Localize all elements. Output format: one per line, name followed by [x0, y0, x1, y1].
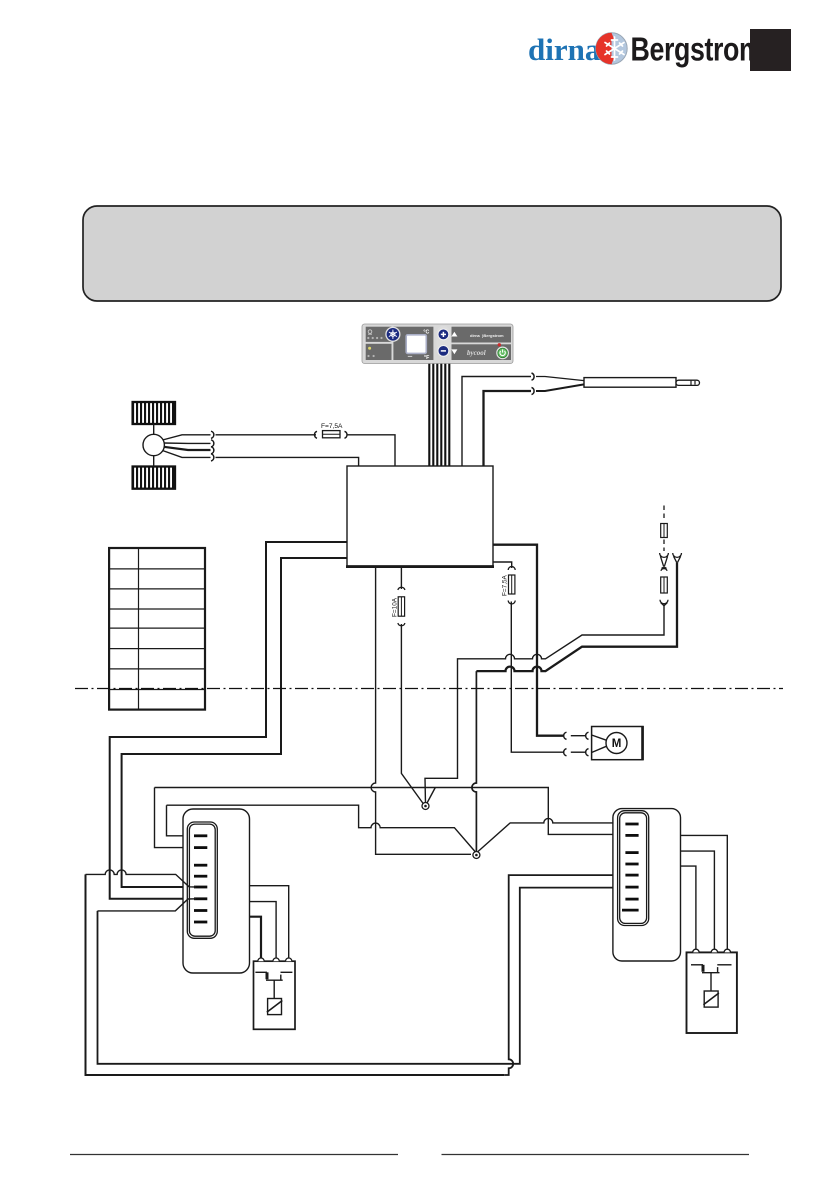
- fuse F1 7,5A horizontal: [315, 431, 347, 439]
- wire box-left upper to left connector pin6: [110, 542, 347, 899]
- svg-text:dirna: dirna: [470, 333, 481, 338]
- fan wire 3 curl: [211, 447, 214, 454]
- svg-text:)Bergstrom: )Bergstrom: [482, 333, 504, 338]
- panel red led: [498, 343, 501, 346]
- motor wire curls upper: [564, 732, 567, 739]
- panel plus button: [438, 329, 449, 340]
- fuse F4 roof lead: [661, 577, 668, 593]
- wire fan1 to fuse and box: [216, 434, 317, 436]
- legend table: [109, 548, 205, 710]
- footer rule left: [70, 1154, 398, 1156]
- control panel U1: [362, 324, 513, 364]
- blower resistor block lower: [133, 467, 175, 489]
- left relay K1 feed wires: [250, 886, 289, 959]
- splice Y at x677: [673, 553, 682, 562]
- svg-text:F=10A: F=10A: [392, 597, 399, 617]
- temperature probe S1: [536, 377, 700, 392]
- blower motor shaft: [153, 424, 155, 434]
- blower resistor block upper: [133, 402, 175, 424]
- wire node2 riser to roof lead (thick): [472, 671, 476, 852]
- wire box-left lower to left connector pin5: [122, 558, 347, 887]
- wire sensor lead A: [462, 377, 531, 467]
- panel led dots row: [367, 337, 382, 339]
- right connector J2 pins: [622, 824, 639, 910]
- left connector J1 outer shell: [183, 809, 250, 973]
- panel plus-minus pill: [436, 326, 450, 357]
- svg-text:Bergstrom: Bergstrom: [631, 32, 763, 68]
- panel LCD display: [406, 335, 426, 354]
- svg-text:°C: °C: [423, 329, 429, 335]
- wire box-right to motor upper (thick): [493, 545, 563, 736]
- panel MIN marks: [408, 355, 412, 357]
- fan wire 4: [163, 451, 211, 458]
- footer rule right: [442, 1154, 750, 1156]
- wire node2 to right connector pin1: [478, 818, 628, 851]
- left connector J1 pins: [194, 836, 207, 922]
- sensor splice curl B: [532, 387, 535, 394]
- svg-text:°F: °F: [424, 355, 429, 361]
- svg-text:dirna: dirna: [528, 32, 601, 67]
- wire box-right via fuse F3: [493, 562, 512, 568]
- node2 junction: [473, 852, 480, 859]
- fan wire 3: [164, 447, 211, 450]
- fan wire 2: [164, 442, 211, 444]
- sensor splice curl A: [532, 373, 535, 380]
- ground rail lower to pin6s: [98, 899, 197, 911]
- dash-dot bulkhead line: [75, 688, 783, 690]
- panel lower dots: [367, 355, 374, 357]
- svg-text:F=7,5A: F=7,5A: [321, 423, 343, 430]
- dashed supply stub: [663, 506, 665, 522]
- left relay K1: [254, 958, 296, 1029]
- right connector J2 outer shell: [613, 809, 681, 961]
- fuse F3 7,5A vertical: [508, 567, 563, 753]
- grey rounded callout box: [83, 206, 781, 301]
- wire sensor lead B: [484, 391, 532, 466]
- node1 branch diagonal: [427, 788, 436, 805]
- node1 junction: [422, 803, 429, 810]
- control box A1: [347, 466, 493, 566]
- fan wire 2 curl: [211, 440, 214, 447]
- black corner square: [750, 29, 791, 71]
- right connector J2 socket: [618, 811, 649, 926]
- fan wire 1: [163, 435, 211, 440]
- panel up arrow: [451, 332, 457, 337]
- panel power button: [496, 347, 509, 360]
- condenser motor M1: [592, 726, 643, 760]
- blower motor B1: [143, 434, 164, 455]
- right relay K2 feed wires: [681, 835, 728, 949]
- panel minus button: [438, 346, 449, 357]
- fuse F5 dashed lead: [661, 524, 668, 538]
- svg-text:bycool: bycool: [467, 349, 486, 357]
- splice X pair at x664: [660, 553, 669, 571]
- ground rail upper with hops to pin5s: [86, 870, 197, 887]
- motor wire curls lower: [564, 749, 567, 756]
- fuse F2 10A vertical with wire to node1: [398, 567, 424, 804]
- ribbon cable from panel to control box: [429, 364, 449, 466]
- left connector J1 socket: [187, 822, 217, 938]
- svg-text:F=7,5A: F=7,5A: [502, 574, 509, 596]
- long wire pin1-left to node2: [167, 805, 476, 851]
- fan wire 1 curl: [211, 431, 214, 438]
- panel down arrow: [451, 349, 457, 354]
- panel mode icon: [368, 330, 372, 334]
- panel yellow led: [368, 347, 371, 350]
- fan wire 4 curl: [211, 454, 214, 461]
- long wire pin2-left to pin2-right through node1: [155, 788, 629, 835]
- panel snowflake button: [385, 327, 400, 342]
- logo circle with snowflake: [596, 33, 627, 64]
- wire box-bottom to node2 (hops y788): [371, 567, 471, 854]
- wire node1 riser to roof fused lead: [425, 606, 664, 805]
- wire fan4 to box: [216, 457, 359, 466]
- svg-text:M: M: [612, 738, 622, 750]
- splice lower Y at x664: [660, 600, 668, 606]
- right relay K2: [687, 949, 737, 1033]
